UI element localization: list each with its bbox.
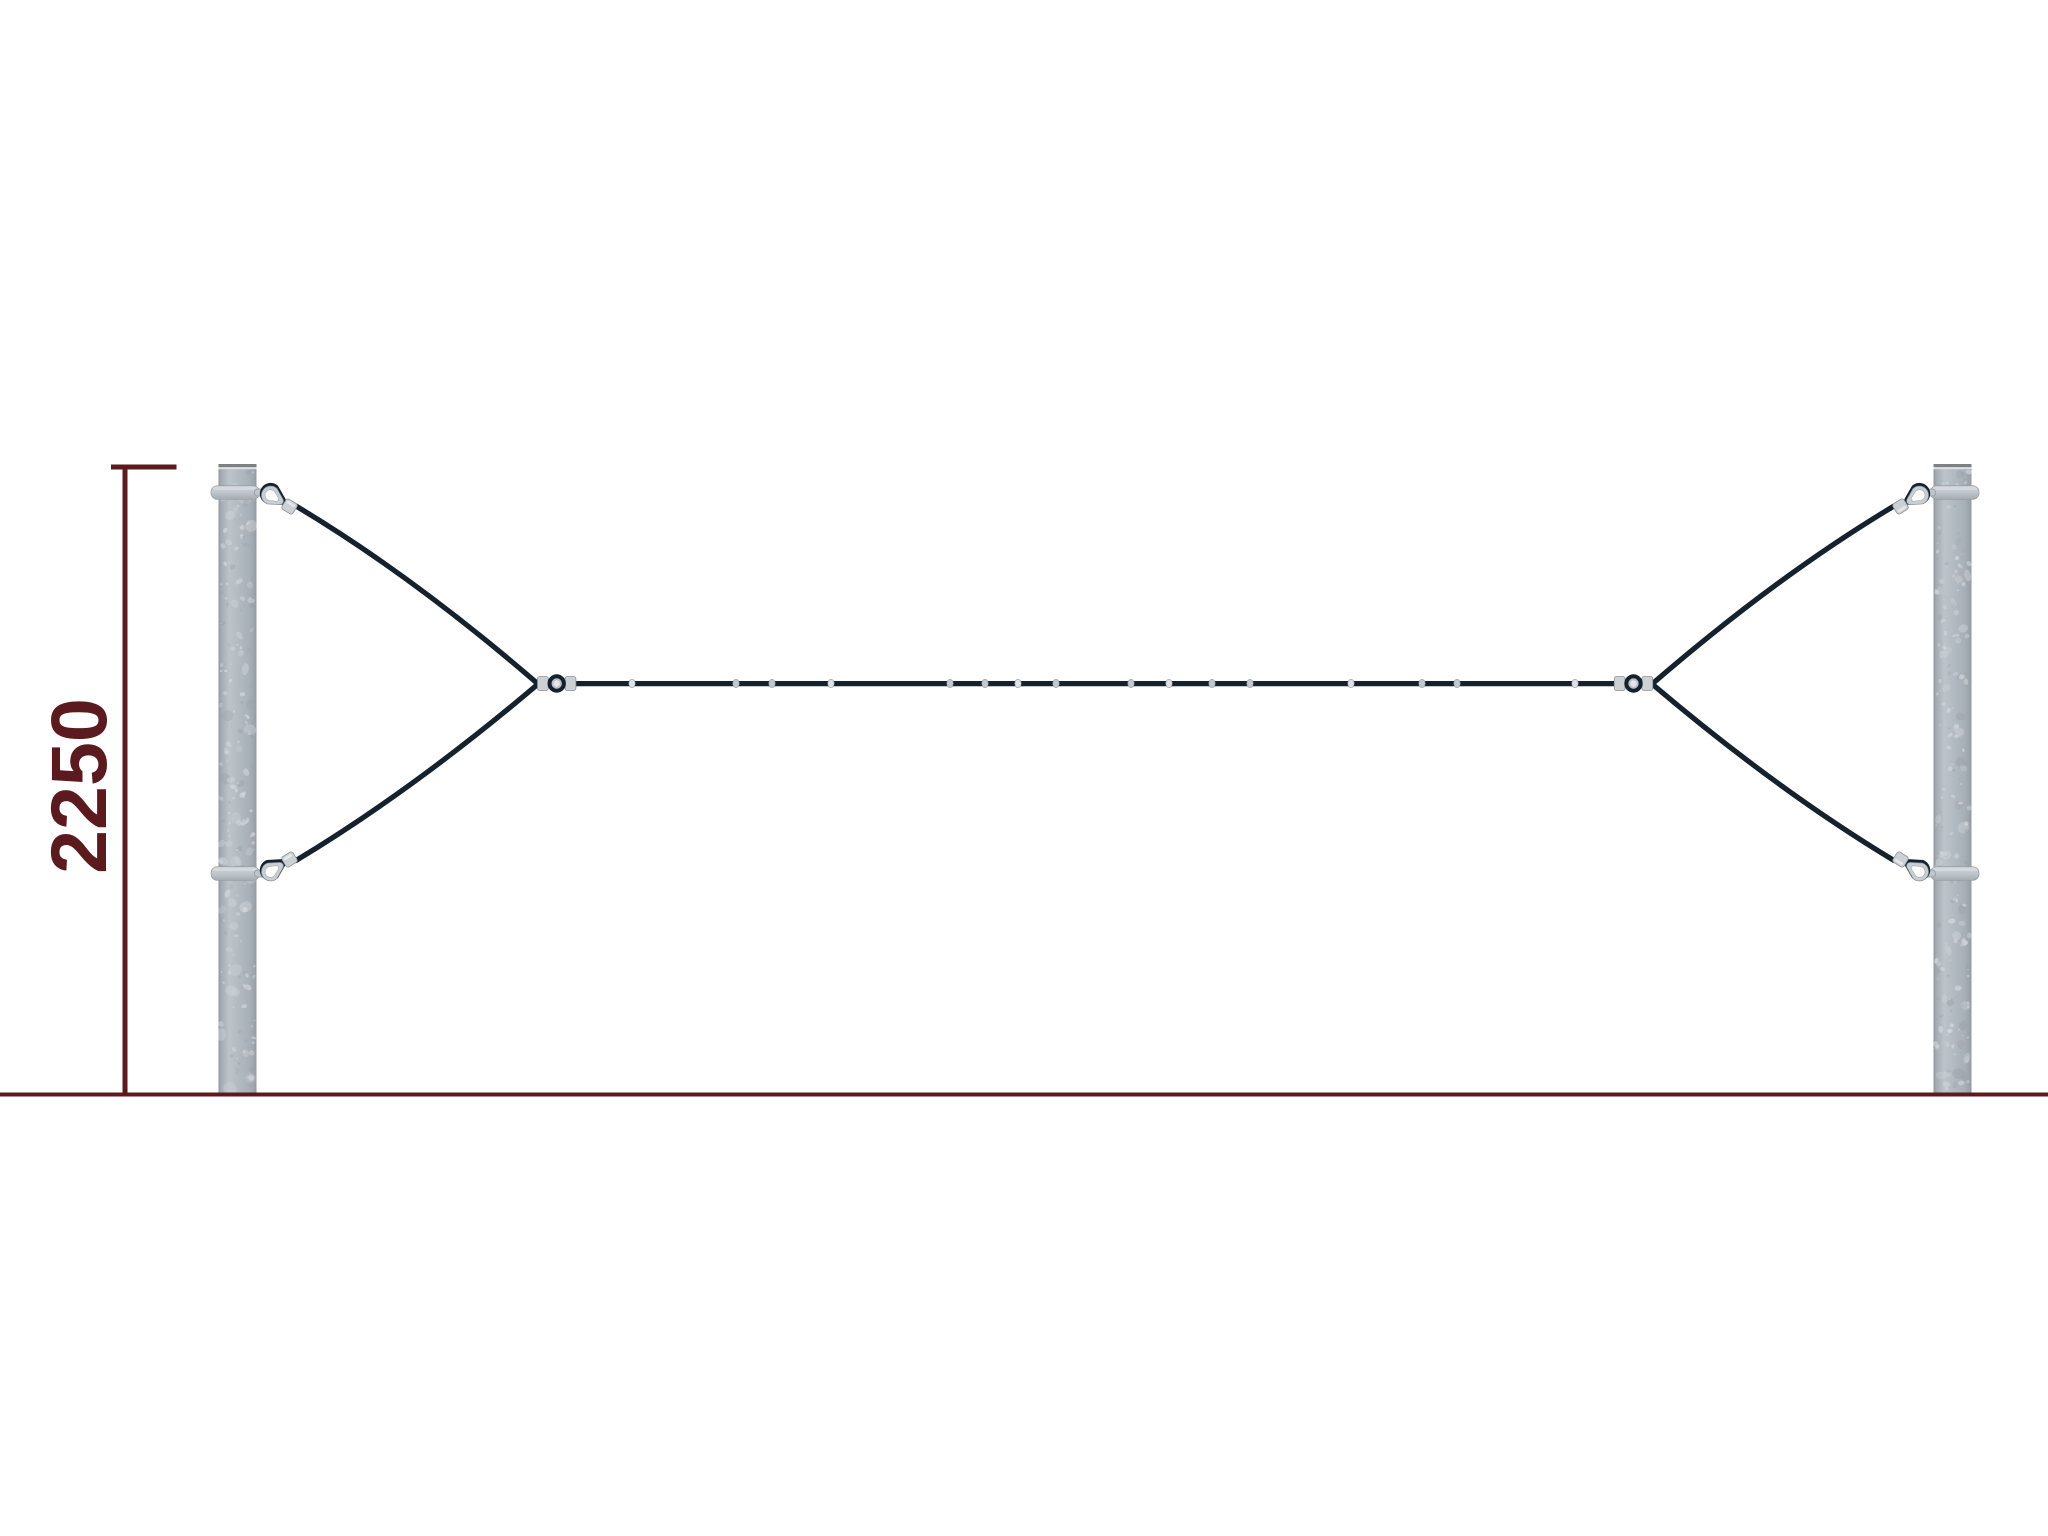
eye lower left bbox=[255, 851, 299, 885]
svg-text:2250: 2250 bbox=[34, 698, 123, 874]
connector ring left bbox=[538, 674, 576, 692]
horizontal rope bbox=[573, 681, 1637, 686]
rope right lower bbox=[1653, 685, 1894, 861]
right post bbox=[1933, 464, 1973, 1097]
rope beads bbox=[629, 679, 1578, 687]
eye upper left bbox=[255, 479, 299, 515]
left post bbox=[216, 464, 259, 1098]
ground line bbox=[0, 1093, 2048, 1097]
eye upper right bbox=[1892, 479, 1936, 515]
clamp band upper right bbox=[1931, 486, 1980, 500]
clamp band lower left bbox=[211, 867, 260, 881]
connector ring right bbox=[1614, 674, 1652, 692]
rope left upper bbox=[296, 506, 538, 684]
rope right upper bbox=[1653, 506, 1894, 684]
rope left lower bbox=[296, 685, 538, 861]
clamp band lower right bbox=[1931, 867, 1980, 881]
clamp band upper left bbox=[211, 486, 260, 500]
dimension line bbox=[111, 465, 177, 1093]
eye lower right bbox=[1892, 851, 1936, 885]
